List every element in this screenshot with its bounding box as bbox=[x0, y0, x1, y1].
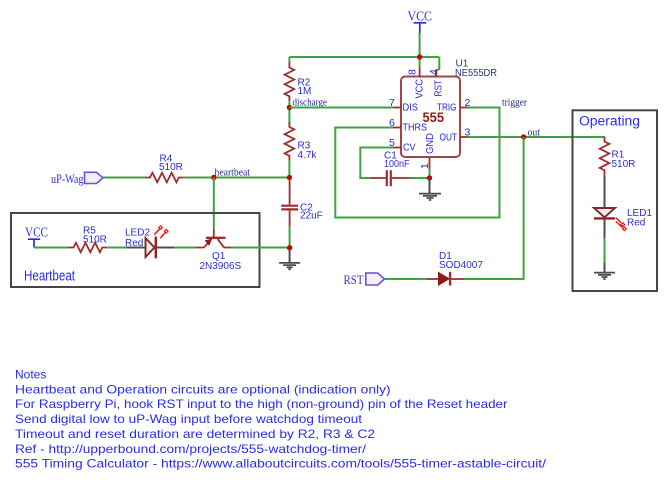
node pin1/C1 ground junction bbox=[427, 175, 432, 180]
power symbol VCC (heartbeat) bbox=[25, 226, 48, 248]
resistor R4 bbox=[145, 153, 184, 182]
box Operating bbox=[573, 110, 658, 291]
node heartbeat/R3 junction bbox=[287, 175, 292, 180]
wire Q1 collector to ground node bbox=[231, 247, 290, 249]
svg-text:LED2: LED2 bbox=[125, 228, 150, 239]
svg-text:Send digital low to uP-Wag inp: Send digital low to uP-Wag input before … bbox=[15, 412, 363, 426]
svg-text:Timeout and reset duration are: Timeout and reset duration are determine… bbox=[15, 427, 375, 441]
node discharge junction bbox=[287, 105, 292, 110]
capacitor C2 bbox=[281, 180, 323, 227]
svg-text:2N3906S: 2N3906S bbox=[200, 261, 242, 272]
power symbol VCC (top) bbox=[408, 10, 433, 34]
svg-text:22uF: 22uF bbox=[300, 211, 323, 222]
svg-text:510R: 510R bbox=[83, 235, 107, 246]
wire out down to D1 bbox=[464, 137, 524, 279]
ground (C2 / Q1) bbox=[279, 249, 300, 269]
svg-text:7: 7 bbox=[389, 97, 395, 109]
pin 5 CV bbox=[389, 137, 416, 154]
svg-text:trigger: trigger bbox=[502, 98, 527, 109]
wire discharge to pin 7 bbox=[289, 107, 393, 109]
svg-text:For Raspberry Pi, hook RST inp: For Raspberry Pi, hook RST input to the … bbox=[15, 397, 508, 411]
svg-text:RST: RST bbox=[433, 80, 445, 97]
svg-text:510R: 510R bbox=[612, 159, 636, 170]
wire R2 top stub bbox=[288, 57, 290, 63]
wire R3 bottom to heartbeat node bbox=[288, 161, 290, 178]
notes text block bbox=[15, 368, 547, 471]
wire C2 bottom to ground node bbox=[289, 226, 291, 248]
svg-text:heartbeat: heartbeat bbox=[215, 168, 251, 179]
wire top rail horizontal bbox=[289, 56, 439, 58]
resistor R3 bbox=[285, 122, 318, 161]
wire RST to D1 bbox=[385, 278, 427, 280]
node heartbeat junction (to Q1 base) bbox=[211, 175, 216, 180]
pin 4 RST bbox=[428, 69, 445, 97]
wire trigger net: pin2 right, down, left, up to pin6 bbox=[335, 108, 499, 218]
ground (operating) bbox=[594, 262, 615, 279]
wire heartbeat down to Q1 bbox=[213, 178, 215, 229]
svg-text:GND: GND bbox=[424, 133, 436, 154]
svg-text:4: 4 bbox=[428, 69, 440, 75]
svg-text:out: out bbox=[528, 127, 541, 138]
wire uP-Wag to R4 bbox=[103, 177, 145, 179]
svg-text:TRIG: TRIG bbox=[437, 101, 457, 113]
svg-text:100nF: 100nF bbox=[384, 159, 410, 170]
wire R2 bottom to discharge node bbox=[288, 101, 290, 124]
port uP-Wag bbox=[51, 171, 103, 186]
port RST bbox=[344, 272, 385, 287]
svg-text:VCC: VCC bbox=[25, 226, 48, 241]
wire R4 to R3 bottom node bbox=[184, 177, 289, 179]
wire C1 to pin1/ground node bbox=[410, 177, 430, 179]
wire out net: pin3 right to operating bbox=[468, 136, 605, 138]
svg-text:Red: Red bbox=[125, 238, 143, 249]
svg-text:CV: CV bbox=[403, 141, 416, 153]
svg-text:VCC: VCC bbox=[414, 79, 426, 99]
svg-text:555 Timing Calculator - https:: 555 Timing Calculator - https://www.alla… bbox=[15, 457, 547, 471]
wire LED2 to Q1 emitter bbox=[174, 247, 196, 249]
wire VCC to R5 bbox=[34, 247, 69, 249]
svg-text:Heartbeat: Heartbeat bbox=[24, 268, 76, 285]
svg-text:510R: 510R bbox=[159, 162, 183, 173]
wire pin 1 to ground node bbox=[429, 169, 431, 179]
svg-text:OUT: OUT bbox=[440, 131, 458, 143]
resistor R2 bbox=[285, 63, 312, 102]
pin 8 VCC bbox=[407, 67, 426, 99]
svg-text:NE555DR: NE555DR bbox=[455, 68, 497, 79]
svg-text:1M: 1M bbox=[298, 86, 312, 97]
svg-text:Ref - http://upperbound.com/pr: Ref - http://upperbound.com/projects/555… bbox=[15, 442, 367, 456]
svg-text:RST: RST bbox=[344, 272, 364, 287]
ground (C1 / pin1) bbox=[419, 178, 441, 200]
junction at VCC rail / pin 8 bbox=[417, 54, 422, 59]
svg-text:THRS: THRS bbox=[403, 121, 428, 133]
wire VCC stub to top rail bbox=[419, 33, 421, 67]
svg-text:Operating: Operating bbox=[579, 113, 640, 128]
IC U1 NE555DR body bbox=[401, 59, 497, 158]
svg-text:Heartbeat and Operation circui: Heartbeat and Operation circuits are opt… bbox=[15, 382, 391, 396]
pin 6 THRS bbox=[389, 117, 427, 134]
resistor R1 bbox=[600, 137, 636, 176]
svg-text:4.7k: 4.7k bbox=[298, 150, 318, 161]
resistor R5 bbox=[69, 226, 108, 253]
svg-text:uP-Wag: uP-Wag bbox=[51, 171, 84, 186]
diode D1 bbox=[427, 251, 483, 286]
svg-text:SOD4007: SOD4007 bbox=[439, 260, 483, 271]
wire LED1 to ground bbox=[604, 238, 606, 262]
pin 1 GND bbox=[419, 133, 436, 169]
svg-text:8: 8 bbox=[407, 69, 419, 75]
pin 7 DIS bbox=[389, 97, 418, 114]
wire R5 to LED2 bbox=[108, 247, 128, 249]
box Heartbeat bbox=[11, 213, 260, 287]
wire CV loop to C1 bbox=[360, 148, 393, 179]
svg-text:DIS: DIS bbox=[403, 101, 419, 113]
pin 2 TRIG bbox=[437, 97, 471, 114]
node C2/Q1/ground junction bbox=[287, 245, 292, 250]
svg-text:Notes: Notes bbox=[15, 368, 46, 382]
pin 3 OUT bbox=[440, 126, 471, 143]
LED LED1 bbox=[594, 175, 652, 238]
LED LED2 bbox=[125, 226, 174, 258]
svg-text:1: 1 bbox=[419, 163, 431, 169]
node out junction bbox=[521, 134, 526, 139]
transistor Q1 bbox=[196, 229, 242, 272]
capacitor C1 bbox=[370, 150, 410, 186]
wire pin4 drop bbox=[436, 57, 439, 71]
svg-text:Red: Red bbox=[627, 218, 645, 229]
